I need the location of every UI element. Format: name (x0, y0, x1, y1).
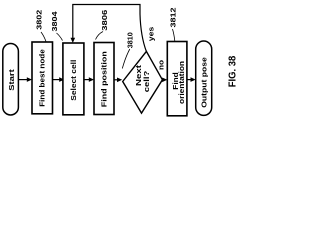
svg-text:3810: 3810 (126, 32, 135, 48)
wire 3802 to 3804 (53, 77, 65, 82)
caption FIG. 38 (228, 56, 239, 88)
terminal Start (3, 44, 19, 116)
svg-text:3812: 3812 (169, 8, 178, 28)
svg-text:FIG. 38: FIG. 38 (228, 56, 239, 88)
leader 3810 (122, 49, 130, 69)
svg-text:yes: yes (146, 27, 155, 42)
label no (157, 59, 166, 70)
svg-text:Start: Start (7, 68, 16, 90)
svg-text:no: no (157, 59, 166, 70)
svg-text:cell?: cell? (142, 71, 151, 93)
wire 3812 to Output pose (187, 77, 196, 82)
label 3810 (126, 32, 135, 48)
svg-text:3802: 3802 (35, 10, 44, 30)
svg-text:Output pose: Output pose (200, 57, 209, 108)
wire no 3810 to 3812 (162, 78, 167, 83)
label 3806 (100, 10, 109, 31)
label 3812 (169, 8, 178, 28)
svg-text:3806: 3806 (100, 10, 109, 31)
process 3804 Select cell (63, 43, 84, 115)
wire yes loop 3810 to 3804 (71, 5, 147, 52)
svg-text:orientation: orientation (177, 61, 186, 104)
label 3802 (35, 10, 44, 30)
decision 3810 Next cell? (123, 51, 163, 113)
label yes (146, 27, 155, 42)
leader 3804 (57, 33, 63, 41)
wire Start to 3802 (18, 77, 32, 82)
svg-text:3804: 3804 (50, 12, 59, 32)
leader 3806 (96, 32, 104, 40)
svg-text:Find best node: Find best node (38, 49, 47, 107)
leader 3812 (173, 29, 175, 41)
process 3812 Find orientation (167, 42, 187, 116)
process 3802 Find best node (32, 42, 53, 114)
terminal Output pose (196, 41, 212, 115)
svg-text:Select cell: Select cell (69, 60, 78, 101)
wire 3804 to 3806 (84, 77, 94, 82)
wire 3806 to 3810 (114, 78, 122, 83)
svg-text:Find position: Find position (99, 51, 108, 107)
leader 3802 (41, 32, 46, 42)
process 3806 Find position (94, 43, 114, 115)
label 3804 (50, 12, 59, 32)
